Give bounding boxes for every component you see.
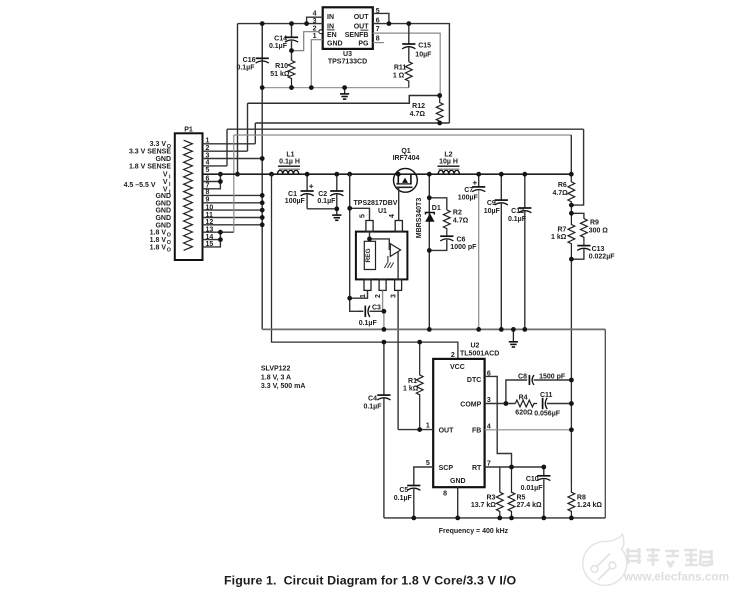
capacitor C14 [285, 24, 298, 51]
ground symbol on GND rail [509, 329, 518, 347]
resistor R4 [515, 400, 537, 407]
svg-text:TPS7133CD: TPS7133CD [328, 59, 367, 66]
wire 1.8V SENSE horizontal y129 [227, 128, 584, 130]
U3 refdes label [343, 51, 352, 58]
P1 pin 11 wire [203, 217, 263, 219]
connector P1 box [175, 133, 203, 260]
svg-text:13.7 kΩ: 13.7 kΩ [471, 502, 496, 509]
svg-text:R12: R12 [412, 103, 425, 110]
svg-text:R9: R9 [590, 220, 599, 227]
svg-text:14: 14 [206, 234, 214, 241]
value 4.7 Ohm R2 [453, 217, 469, 224]
svg-text:L1: L1 [286, 151, 294, 158]
wire U3 pin1 GND drop [311, 40, 322, 88]
svg-text:SENFB: SENFB [345, 32, 369, 39]
Q1 source stub and dot [396, 172, 401, 184]
U3 pin number 2 [313, 26, 317, 33]
svg-text:3.3 V SENSE: 3.3 V SENSE [129, 149, 171, 156]
svg-text:EN: EN [327, 32, 337, 39]
wire U1 supply riser x349.7 [350, 174, 364, 311]
svg-text:0.1µF: 0.1µF [508, 216, 527, 223]
value 0.1uF C2 [317, 198, 336, 205]
svg-text:1.8 V: 1.8 V [150, 230, 167, 237]
net label V_I pin6 [163, 179, 171, 188]
wire U2 GND pin8 [457, 487, 459, 518]
svg-text:OUT: OUT [439, 427, 455, 434]
svg-text:0.1µF: 0.1µF [359, 320, 378, 327]
net label GND pin8 [155, 193, 171, 200]
P1 pin 8 wire [203, 194, 263, 196]
resistor R7 [568, 213, 575, 259]
svg-text:C13: C13 [592, 246, 605, 253]
diode D1 arrow [425, 213, 434, 222]
svg-text:C14: C14 [274, 35, 287, 42]
svg-text:10µ H: 10µ H [439, 159, 458, 166]
svg-text:6: 6 [206, 175, 210, 182]
ground symbol below U3 [340, 88, 349, 100]
P1 pin 13 wire [203, 231, 234, 233]
U3 pin number 4 [313, 11, 317, 18]
label C10 [526, 476, 539, 483]
wire U3 pin4 jog [307, 17, 323, 23]
text Frequency = 400 kHz [439, 528, 509, 535]
svg-text:11: 11 [206, 212, 214, 219]
svg-text:L2: L2 [444, 151, 452, 158]
svg-text:PG: PG [358, 41, 369, 48]
Q1 channel bar [396, 183, 411, 185]
svg-text:IRF7404: IRF7404 [393, 155, 420, 162]
junction dots P1 pins [218, 156, 265, 242]
label R3 [486, 494, 495, 501]
svg-text:3: 3 [391, 294, 398, 298]
svg-text:C11: C11 [540, 392, 553, 399]
svg-text:TL5001ACD: TL5001ACD [460, 350, 499, 357]
U2 pin number 8 [443, 490, 447, 497]
net label 1.8 V SENSE pin4 [129, 163, 171, 170]
U3 pin label EN pin2 [327, 32, 337, 39]
capacitor C1 (polarized) [301, 174, 314, 209]
wire R9 branch [571, 213, 584, 218]
value 1000 pF C6 [450, 244, 477, 251]
junction dots U1 area [347, 206, 386, 314]
U2 pin number 2 [451, 352, 455, 359]
U3 pin number 3 [313, 18, 317, 25]
svg-text:OUT: OUT [354, 14, 370, 21]
label R12 [412, 103, 425, 110]
svg-text:Frequency = 400 kHz: Frequency = 400 kHz [439, 528, 509, 535]
svg-text:2: 2 [375, 294, 382, 298]
P1 pin 7 wire [203, 182, 221, 189]
svg-text:R3: R3 [486, 494, 495, 501]
junction dots U2 network [382, 340, 574, 470]
U3 pin label OUT pin6 [354, 24, 370, 31]
junction dots D1 and divider columns [427, 195, 574, 261]
svg-text:1: 1 [426, 423, 430, 430]
svg-text:100µF: 100µF [285, 198, 306, 205]
svg-text:O: O [167, 247, 171, 253]
svg-text:MBRS340T3: MBRS340T3 [416, 198, 423, 239]
svg-text:O: O [167, 240, 171, 246]
value 1500 pF C8 [539, 373, 566, 380]
wire U2 OUT pin1 [398, 429, 433, 431]
label R9 [590, 220, 599, 227]
capacitor C3 [358, 306, 384, 317]
label R5 [517, 494, 526, 501]
U1 pin number 5 (rotated) [360, 214, 367, 218]
wire U1 pin3 column x398.1 down to OUT wire [397, 290, 399, 429]
svg-text:8: 8 [443, 490, 447, 497]
value 27.4 kOhm R5 [517, 502, 542, 509]
svg-text:R1: R1 [408, 378, 417, 385]
svg-text:0.1µF: 0.1µF [236, 64, 255, 71]
svg-text:1.24 kΩ: 1.24 kΩ [577, 502, 602, 509]
wire 1.8V SENSE right descent x583.6 [571, 129, 583, 205]
value 300 Ohm R9 [589, 227, 609, 234]
U3 pin label SENFB pin7 (FB overbar) [345, 30, 369, 39]
label R6 [558, 182, 567, 189]
svg-text:12: 12 [206, 219, 214, 226]
svg-text:8: 8 [206, 189, 210, 196]
U1 REG text (rotated) [365, 248, 372, 262]
wire 3.3V SENSE riser pin2 to y103.2 [247, 103, 249, 151]
watermark url text [623, 570, 729, 584]
U3 pin label GND pin1 [327, 41, 343, 48]
label R10 [275, 63, 288, 70]
junction dots bottom rail [411, 516, 573, 521]
resistor R5 [508, 467, 515, 518]
svg-text:V: V [163, 172, 168, 179]
svg-text:C15: C15 [418, 43, 431, 50]
svg-text:4: 4 [206, 160, 210, 167]
U1 internal ground hatch [384, 256, 393, 268]
label C16 [243, 57, 256, 64]
Q1 gate bar [396, 186, 412, 188]
label R11 [394, 65, 407, 72]
value 4.7 Ohm R12 [410, 111, 426, 118]
capacitor C15 [402, 24, 415, 62]
svg-text:10µF: 10µF [415, 51, 432, 58]
U1 driver buffer triangle [390, 244, 400, 257]
label C14 [274, 35, 287, 42]
label C15 [418, 43, 431, 50]
net label 3.3 V SENSE pin2 [129, 149, 171, 156]
svg-text:0.056µF: 0.056µF [534, 410, 561, 417]
resistor R10 [288, 51, 295, 88]
label R1 [408, 378, 417, 385]
wire buffer output to pin 3 [397, 252, 399, 280]
value 0.1uF C5 [394, 495, 413, 502]
value 620 Ohm R4 [515, 410, 533, 417]
capacitor C8 [529, 375, 571, 385]
svg-text:DTC: DTC [467, 377, 481, 384]
svg-text:R2: R2 [453, 210, 462, 217]
wire 1.8V_O horizontal y135 [234, 134, 572, 136]
svg-text:C8: C8 [518, 373, 527, 380]
U1 pin number 1 (rotated) [360, 294, 367, 298]
value 1 kOhm R1 [403, 385, 419, 392]
svg-text:Figure 1. Circuit Diagram for: Figure 1. Circuit Diagram for 1.8 V Core… [224, 574, 516, 588]
P1 pin 4 wire [203, 165, 228, 167]
svg-text:C5: C5 [399, 487, 408, 494]
text SLVP122 info block [261, 366, 306, 390]
U3 pin number 6 [376, 17, 380, 24]
svg-text:U1: U1 [378, 208, 387, 215]
U3 EN inversion bubble pin2 [319, 30, 323, 34]
C7 plus sign [473, 181, 477, 185]
svg-text:R11: R11 [394, 65, 407, 72]
U1 pin number 4 (rotated) [389, 214, 396, 218]
svg-text:300 Ω: 300 Ω [589, 227, 609, 234]
U3 pin label IN pin4 [327, 14, 334, 21]
wire U3 pin8 PG stub [373, 42, 384, 44]
svg-text:0.1µF: 0.1µF [394, 495, 413, 502]
net label GND pin12 [155, 222, 171, 229]
svg-text:TPS2817DBV: TPS2817DBV [354, 200, 398, 207]
wire U2 COMP pin3 [485, 403, 516, 405]
svg-text:1.8 V SENSE: 1.8 V SENSE [129, 163, 171, 170]
svg-text:51 kΩ: 51 kΩ [270, 71, 290, 78]
svg-text:0.1µF: 0.1µF [269, 43, 288, 50]
svg-text:U3: U3 [343, 51, 352, 58]
U1 pin 5 pad [366, 221, 373, 232]
label C7 [464, 187, 473, 194]
svg-text:4.7Ω: 4.7Ω [453, 217, 469, 224]
svg-text:REG: REG [365, 248, 372, 262]
U2 pin number 1 [426, 423, 430, 430]
label C6 [457, 237, 466, 244]
net label 3.3 V_O pin1 [150, 141, 171, 150]
svg-text:C16: C16 [243, 57, 256, 64]
svg-text:5: 5 [360, 214, 367, 218]
wire 3.3V_O riser pin1 to y123 [254, 123, 256, 144]
U2 pin label RT [472, 465, 482, 472]
svg-text:15: 15 [206, 241, 214, 248]
wire VCC feed x272 down and across to U2 [272, 174, 458, 359]
inductor L1 core bars [278, 166, 300, 169]
svg-text:7: 7 [376, 26, 380, 33]
svg-text:U2: U2 [471, 342, 480, 349]
svg-text:RT: RT [472, 465, 482, 472]
value 4.7 Ohm R6 [552, 190, 568, 197]
wire U3 pin3 IN input rail y23.6 [238, 23, 323, 25]
wire U2 DTC pin6 riser to R5 [485, 376, 512, 467]
value 1.24 kOhm R8 [577, 502, 602, 509]
wire bottom GND rail y517.9 [384, 517, 605, 519]
svg-text:R7: R7 [557, 227, 566, 234]
label U1 refdes [378, 208, 387, 215]
svg-text:27.4 kΩ: 27.4 kΩ [517, 502, 542, 509]
net label 4.5-5.5 V [124, 182, 156, 189]
svg-text:8: 8 [376, 36, 380, 43]
svg-text:C12: C12 [511, 208, 524, 215]
U2 pin number 5 [426, 460, 430, 467]
svg-text:0.1µF: 0.1µF [317, 198, 336, 205]
Q1 gate lead to U1 pin4 [398, 187, 400, 220]
net label GND pin3 [155, 156, 171, 163]
svg-text:1.8 V: 1.8 V [150, 237, 167, 244]
svg-text:4.7Ω: 4.7Ω [410, 111, 426, 118]
junction dots GND rail [382, 327, 528, 332]
inductor L2 core bars [438, 166, 460, 169]
svg-text:GND: GND [155, 200, 171, 207]
wire U3 ground rail y87.6 [262, 87, 409, 89]
value MBRS340T3 (rotated) [416, 198, 423, 239]
U3 pin number 5 [376, 8, 380, 15]
label C5 [399, 487, 408, 494]
label C8 [518, 373, 527, 380]
label U2 refdes [471, 342, 480, 349]
U2 pin label COMP [460, 402, 481, 409]
label D1 [432, 205, 441, 212]
resistor R6 [568, 174, 575, 205]
svg-text:1 kΩ: 1 kΩ [551, 234, 567, 241]
wire U3 pin6 OUT to right descent [373, 24, 450, 123]
wire R3 drop [499, 467, 501, 492]
label R7 [557, 227, 566, 234]
svg-text:3.3 V: 3.3 V [150, 141, 167, 148]
svg-text:R6: R6 [558, 182, 567, 189]
U3 pin label OUT pin5 [354, 14, 370, 21]
label C4 [368, 396, 377, 403]
svg-text:10: 10 [206, 204, 214, 211]
P1 pin 15 wire [203, 232, 221, 247]
label TPS2817DBV U1 part number [354, 200, 398, 207]
capacitor C10 [537, 467, 550, 518]
svg-text:GND: GND [155, 156, 171, 163]
value 0.056uF C11 [534, 410, 561, 417]
net label V_I pin5 [163, 172, 171, 181]
Q1 body arrow [402, 178, 408, 183]
svg-text:4: 4 [389, 214, 396, 218]
label C9 [487, 200, 496, 207]
svg-text:3.3 V, 500 mA: 3.3 V, 500 mA [261, 383, 306, 390]
capacitor C5 [407, 486, 420, 518]
wire U3 pin7 SENFB descent [373, 33, 440, 95]
svg-text:10µF: 10µF [484, 208, 501, 215]
wire U1 pin5 to REG [369, 232, 371, 242]
U3 pin number 1 [313, 33, 317, 40]
svg-text:IN: IN [327, 14, 334, 21]
U2 pin number 6 [487, 370, 491, 377]
svg-text:1: 1 [206, 138, 210, 145]
value 100uF C1 [285, 198, 306, 205]
P1 pin 3 wire [203, 158, 263, 160]
svg-text:C3: C3 [372, 304, 381, 311]
capacitor C6 [429, 236, 453, 250]
svg-text:SCP: SCP [439, 465, 454, 472]
wire Q1 drain / D1 column x429.3 [428, 174, 430, 329]
figure caption [224, 574, 516, 588]
svg-text:5: 5 [426, 460, 430, 467]
svg-text:GND: GND [155, 222, 171, 229]
resistor R11 [405, 62, 412, 88]
svg-text:www.elecfans.com: www.elecfans.com [623, 570, 729, 584]
resistor R2 [443, 210, 450, 236]
svg-text:P1: P1 [184, 127, 193, 134]
svg-text:1000 pF: 1000 pF [450, 244, 477, 251]
value 10uF C9 [484, 208, 501, 215]
net label V_I pin7 [163, 186, 171, 195]
resistor R3 [496, 492, 503, 518]
P1 pin 2 wire [203, 150, 248, 152]
label Q1 [401, 148, 410, 155]
svg-text:4.5 –5.5 V: 4.5 –5.5 V [124, 182, 156, 189]
P1 pin 1 wire [203, 143, 256, 145]
wire right frame x605.3 GND rail to bottom rail [604, 329, 606, 518]
svg-text:C7: C7 [464, 187, 473, 194]
capacitor C12 column [518, 174, 531, 329]
svg-text:FB: FB [472, 427, 481, 434]
svg-text:C9: C9 [487, 200, 496, 207]
wire FB column x571 down to bottom rail [570, 259, 572, 486]
P1 pin 6 wire [203, 181, 221, 183]
svg-text:Q1: Q1 [401, 148, 410, 155]
wire U1 pin1 to supply column [350, 290, 368, 298]
wire 3.3V SENSE route y103.2 to R12 top [248, 96, 440, 104]
capacitor C9 column [495, 174, 508, 329]
U2 pin label DTC [467, 377, 481, 384]
value 0.022uF C13 [589, 253, 616, 260]
net label 1.8 V_O pin15 [150, 244, 171, 253]
U2 pin number 7 [487, 461, 491, 468]
svg-text:1 Ω: 1 Ω [393, 73, 405, 80]
U1 pin number 2 (rotated) [375, 294, 382, 298]
svg-text:2: 2 [206, 145, 210, 152]
value IRF7404 [393, 155, 420, 162]
capacitor C4 column [377, 342, 390, 518]
inductor L1 coil [278, 170, 299, 174]
U3 part number TPS7133CD [328, 59, 367, 66]
svg-text:620Ω: 620Ω [515, 410, 533, 417]
P1 pin 9 wire [203, 202, 263, 204]
wire C8 branch [506, 380, 527, 404]
svg-text:R5: R5 [517, 494, 526, 501]
watermark chinese strokes [626, 548, 713, 567]
svg-text:C10: C10 [526, 476, 539, 483]
wire 1.8V SENSE riser pin4 to y129 [226, 129, 228, 166]
svg-text:0.01µF: 0.01µF [521, 485, 544, 492]
U3 pin number 8 [376, 36, 380, 43]
svg-text:3: 3 [206, 152, 210, 159]
label C2 [318, 191, 327, 198]
resistor R9 [581, 219, 588, 246]
value 0.01uF C10 [521, 485, 544, 492]
svg-text:1500 pF: 1500 pF [539, 373, 566, 380]
U2 pin number 3 [487, 397, 491, 404]
value 10uH L2 [439, 159, 458, 166]
svg-text:GND: GND [155, 215, 171, 222]
U1 pin 4 pad [395, 221, 402, 232]
U2 pin label OUT [439, 427, 455, 434]
label L2 [444, 151, 452, 158]
value 0.1uF C16 [236, 64, 255, 71]
svg-text:9: 9 [206, 197, 210, 204]
svg-text:0.1µF: 0.1µF [363, 403, 382, 410]
wire R6 bottom to R7 top segment [570, 205, 572, 213]
value 0.1uH L1 [279, 159, 300, 166]
wire 3.3V_O y123 from riser to R12 bottom [255, 122, 449, 124]
label C12 [511, 208, 524, 215]
svg-text:C4: C4 [368, 396, 377, 403]
U1 internal REG block [364, 241, 375, 269]
wire C1 C2 bottom tie [307, 208, 337, 210]
value 1 kOhm R7 [551, 234, 567, 241]
U2 part number TL5001ACD [460, 350, 499, 357]
svg-text:C1: C1 [288, 191, 297, 198]
U1 pin number 3 (rotated) [391, 294, 398, 298]
label C11 [540, 392, 553, 399]
diode D1 MBRS340T3 cathode bar [426, 213, 435, 215]
